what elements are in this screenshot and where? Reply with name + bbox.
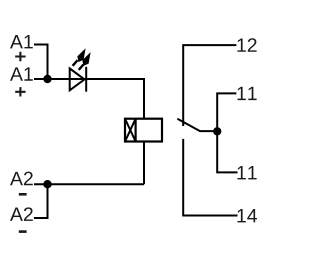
LED light arrow 1: [73, 50, 85, 66]
polarity - (upper A2): [19, 193, 27, 196]
wire coil bottom to A2 rail: [143, 142, 145, 185]
coil X mark: [125, 119, 136, 142]
terminal label A1 (lower): [10, 67, 33, 80]
node A2 junction: [43, 180, 51, 188]
relay coil K1 box: [125, 119, 162, 142]
switch blade: [177, 119, 217, 131]
wire contact 12: [183, 45, 236, 126]
wire contact 14: [183, 139, 237, 216]
LED D1 diode triangle: [70, 68, 85, 90]
terminal label 12: [237, 38, 256, 52]
wire A1 upper to node: [34, 45, 48, 80]
terminal label 11 lower: [237, 166, 256, 179]
terminal label 14: [237, 209, 257, 222]
terminal label A1 (upper): [10, 35, 33, 48]
terminal label A2 (upper): [10, 172, 33, 186]
coil partition: [135, 119, 137, 142]
wire A2 lower to node: [34, 184, 48, 218]
terminal label 11 upper: [237, 87, 256, 100]
LED light arrow 2: [79, 54, 90, 70]
polarity - (lower A2): [19, 230, 27, 233]
node common junction: [213, 127, 221, 135]
terminal label A2 (lower): [10, 207, 33, 221]
node A1 junction: [43, 75, 51, 83]
wire A1 lower rail through LED to coil top: [34, 79, 144, 119]
LED D1 cathode bar: [85, 67, 87, 92]
wire A2 rail: [34, 183, 144, 185]
polarity + (lower A1): [15, 87, 25, 96]
polarity + (upper A1): [15, 52, 25, 61]
wire contact 11 lower: [217, 131, 237, 172]
wire contact 11 upper: [217, 93, 236, 131]
